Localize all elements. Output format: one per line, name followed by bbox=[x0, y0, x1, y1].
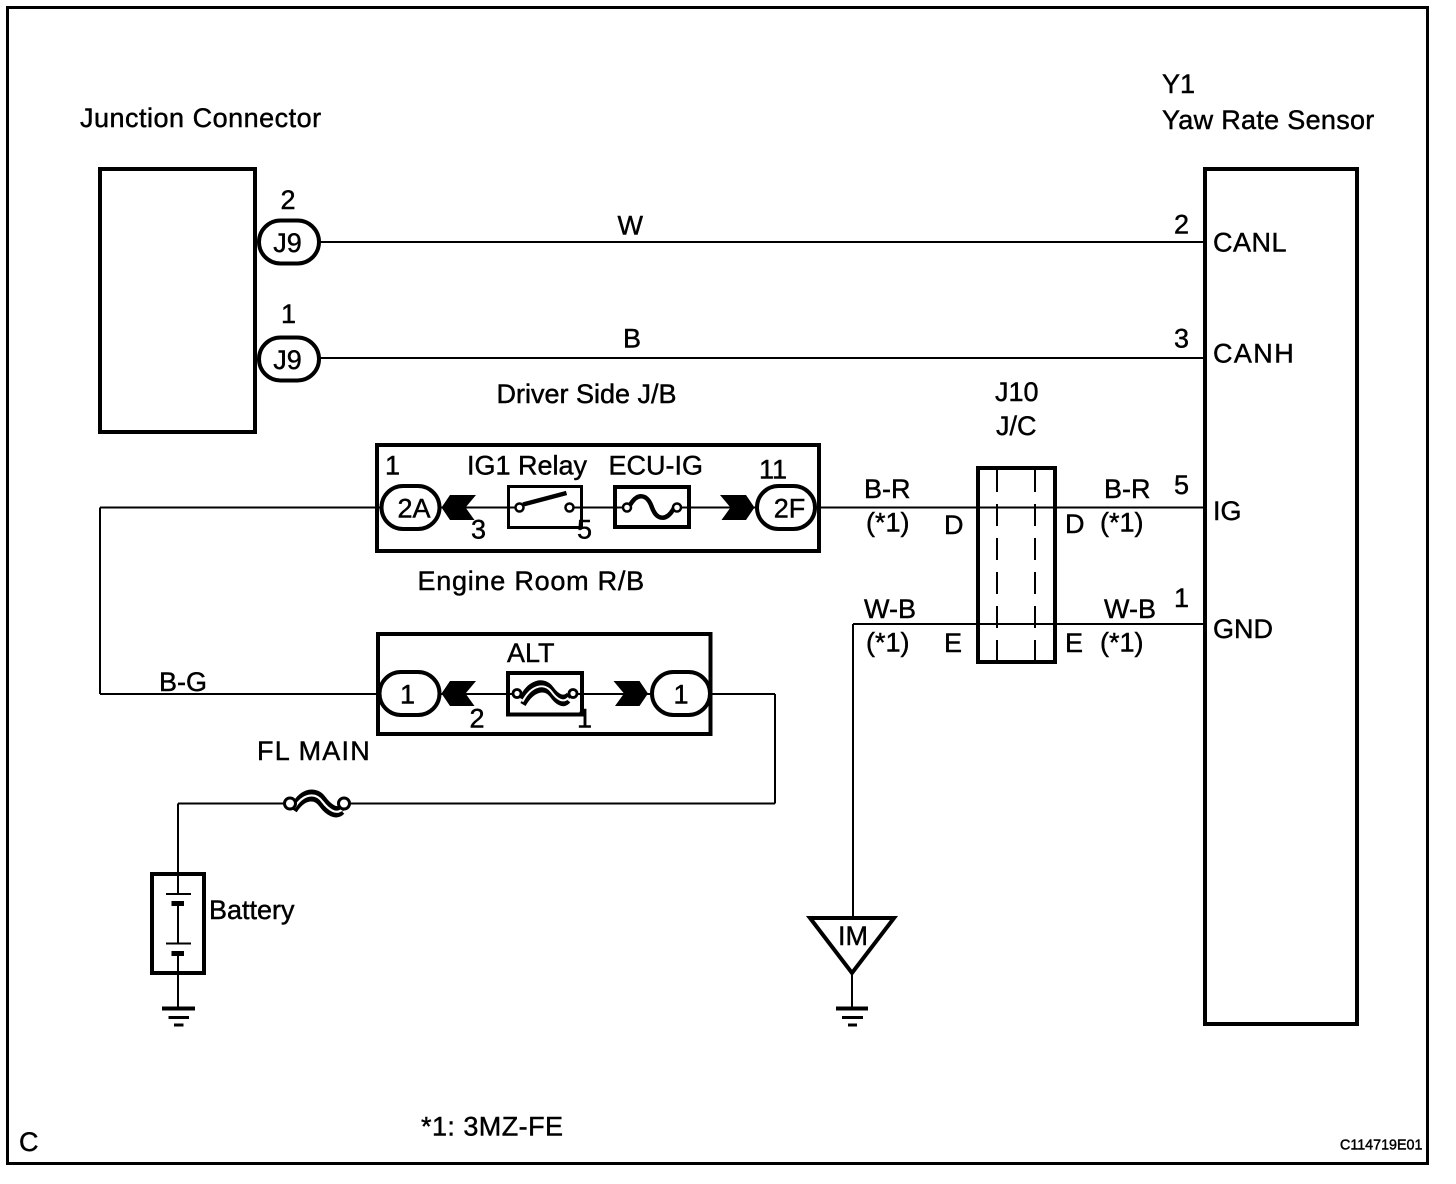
svg-text:Yaw Rate Sensor: Yaw Rate Sensor bbox=[1162, 105, 1375, 135]
svg-text:IG1 Relay: IG1 Relay bbox=[467, 451, 588, 481]
junction connector J10 box bbox=[978, 468, 1055, 662]
svg-text:ALT: ALT bbox=[507, 638, 555, 668]
wire FL MAIN right bbox=[344, 803, 775, 805]
battery cell 1 short plate bbox=[172, 901, 185, 906]
relay IG1 box bbox=[509, 487, 582, 528]
junction connector box bbox=[100, 169, 255, 432]
svg-text:J9: J9 bbox=[273, 228, 302, 258]
IM to ground wire bbox=[851, 973, 853, 1008]
svg-text:(*1): (*1) bbox=[1100, 628, 1144, 658]
fusible link FL MAIN element bbox=[295, 793, 343, 810]
svg-text:B-R: B-R bbox=[1104, 474, 1151, 504]
engine room R/B box bbox=[378, 634, 711, 734]
svg-text:E: E bbox=[944, 628, 962, 658]
svg-text:W: W bbox=[618, 211, 644, 241]
fusible link circle right bbox=[569, 690, 577, 698]
battery cell 1 long plate bbox=[166, 893, 191, 895]
battery cell 2 long plate bbox=[166, 943, 191, 945]
svg-text:(*1): (*1) bbox=[1100, 508, 1144, 538]
svg-text:2: 2 bbox=[470, 704, 485, 734]
wire W-B vertical to IM bbox=[852, 624, 854, 918]
FL MAIN circle right bbox=[339, 798, 350, 809]
svg-text:C114719E01: C114719E01 bbox=[1340, 1138, 1422, 1154]
fusible link ALT element bbox=[522, 683, 569, 699]
svg-text:1: 1 bbox=[673, 680, 688, 710]
svg-text:3: 3 bbox=[1174, 324, 1189, 354]
connector 1 oval right bbox=[652, 672, 710, 715]
svg-text:1: 1 bbox=[281, 299, 296, 329]
wire B-G row bbox=[100, 693, 517, 695]
relay contact circle right bbox=[566, 504, 574, 512]
wire IG row middle segment bbox=[570, 507, 627, 509]
svg-text:2: 2 bbox=[1174, 210, 1189, 240]
svg-text:W-B: W-B bbox=[1104, 594, 1156, 624]
svg-text:11: 11 bbox=[759, 455, 787, 485]
fusible link circle left bbox=[513, 690, 521, 698]
svg-text:B-R: B-R bbox=[864, 474, 911, 504]
svg-text:2F: 2F bbox=[774, 494, 806, 524]
svg-text:B: B bbox=[623, 324, 641, 354]
svg-text:GND: GND bbox=[1213, 614, 1273, 644]
wire vertical x=100 bbox=[99, 508, 101, 695]
ground (IM) bbox=[836, 1007, 868, 1011]
J10 dashed line left bbox=[996, 470, 998, 660]
driver side J/B box bbox=[377, 445, 819, 551]
wire B (J9-1 to Y1 CANH) bbox=[300, 357, 1205, 359]
svg-text:(*1): (*1) bbox=[866, 628, 910, 658]
svg-text:3: 3 bbox=[471, 515, 486, 545]
svg-text:5: 5 bbox=[1174, 470, 1189, 500]
battery cell 2 short plate bbox=[172, 951, 185, 956]
fuse terminal circle left bbox=[623, 504, 631, 512]
wire ALT out segment bbox=[573, 693, 775, 695]
arrow into 1 right bbox=[614, 681, 649, 706]
Y1 yaw rate sensor box bbox=[1205, 169, 1357, 1024]
wire battery drop bbox=[177, 804, 179, 895]
relay contact circle left bbox=[516, 504, 524, 512]
battery to ground wire bbox=[177, 954, 179, 1009]
relay switch lever bbox=[523, 493, 567, 505]
svg-text:Driver Side J/B: Driver Side J/B bbox=[497, 379, 677, 409]
wire vertical x=775 bbox=[774, 694, 776, 804]
battery box bbox=[152, 874, 204, 973]
svg-text:W-B: W-B bbox=[864, 594, 916, 624]
svg-text:1: 1 bbox=[400, 680, 415, 710]
fuse ECU-IG box bbox=[615, 487, 689, 527]
connector J9 pin 1 oval bbox=[259, 338, 319, 381]
connector 1 oval left bbox=[380, 672, 440, 715]
svg-text:J9: J9 bbox=[273, 345, 302, 375]
svg-text:Junction Connector: Junction Connector bbox=[80, 103, 322, 133]
connector 2F oval bbox=[757, 486, 815, 529]
connector J9 pin 2 oval bbox=[259, 221, 319, 264]
svg-text:CANL: CANL bbox=[1213, 228, 1287, 258]
svg-text:J/C: J/C bbox=[996, 411, 1037, 441]
arrow into 2A bbox=[442, 495, 477, 520]
svg-text:CANH: CANH bbox=[1213, 339, 1295, 369]
svg-text:IG: IG bbox=[1213, 496, 1242, 526]
svg-text:E: E bbox=[1065, 628, 1083, 658]
svg-text:1: 1 bbox=[1174, 583, 1189, 613]
battery internal wire bbox=[177, 904, 179, 944]
svg-text:Battery: Battery bbox=[209, 895, 295, 925]
svg-text:IM: IM bbox=[838, 921, 868, 951]
svg-text:B-G: B-G bbox=[159, 667, 207, 697]
svg-text:C: C bbox=[19, 1127, 39, 1157]
arrow into 2F bbox=[720, 495, 755, 520]
ground (battery) bbox=[162, 1007, 195, 1011]
svg-text:*1: 3MZ-FE: *1: 3MZ-FE bbox=[421, 1112, 564, 1142]
svg-text:ECU-IG: ECU-IG bbox=[609, 451, 704, 481]
svg-text:FL MAIN: FL MAIN bbox=[257, 736, 371, 766]
svg-text:Y1: Y1 bbox=[1162, 69, 1195, 99]
wire W (J9-2 to Y1 CANL) bbox=[300, 241, 1205, 243]
svg-text:2A: 2A bbox=[397, 494, 430, 524]
wire IG row left segment bbox=[100, 507, 520, 509]
fuse terminal circle right bbox=[673, 504, 681, 512]
svg-text:D: D bbox=[1065, 509, 1085, 539]
connector 2A oval bbox=[382, 486, 440, 529]
fuse ECU-IG element bbox=[630, 496, 674, 517]
wire FL MAIN left bbox=[178, 803, 290, 805]
J10 dashed line right bbox=[1034, 470, 1036, 660]
svg-text:2: 2 bbox=[281, 185, 296, 215]
svg-text:D: D bbox=[944, 510, 964, 540]
svg-text:5: 5 bbox=[577, 515, 592, 545]
IM triangle bbox=[810, 918, 894, 973]
svg-text:1: 1 bbox=[385, 451, 400, 481]
FL MAIN circle left bbox=[285, 798, 296, 809]
svg-text:Engine Room R/B: Engine Room R/B bbox=[418, 566, 645, 596]
fuse ALT box bbox=[508, 673, 582, 715]
svg-text:(*1): (*1) bbox=[866, 508, 910, 538]
wire W-B (to Y1 GND) bbox=[853, 623, 1205, 625]
arrow into ALT left bbox=[442, 681, 477, 706]
svg-text:1: 1 bbox=[577, 704, 592, 734]
wire B-R (ECU-IG to Y1 IG) bbox=[677, 507, 1205, 509]
svg-text:J10: J10 bbox=[995, 377, 1039, 407]
